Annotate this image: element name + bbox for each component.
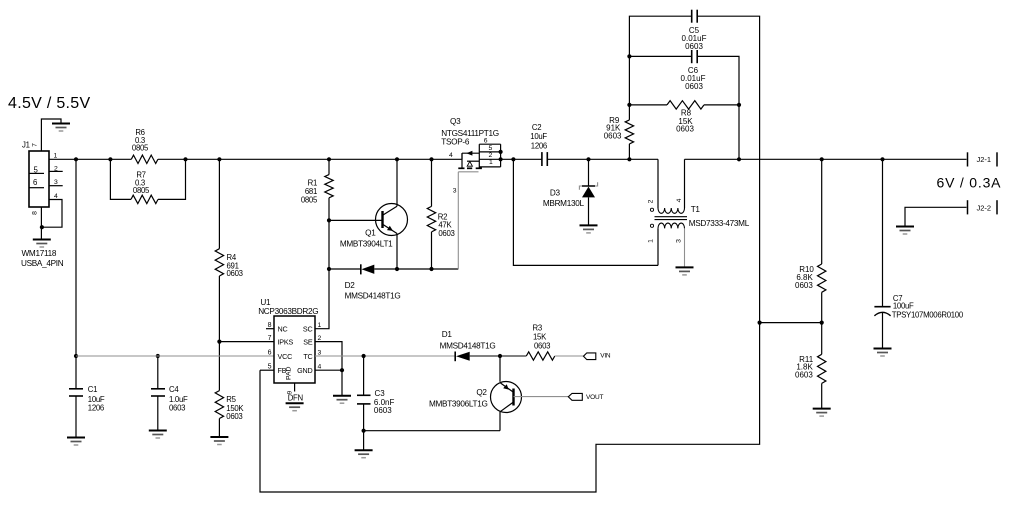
node 6V output label: [937, 175, 1002, 191]
ground at U1 GND: [333, 396, 351, 404]
node C6R8 bus to rail: [737, 157, 741, 161]
wire input rail left: [76, 158, 131, 160]
wire C2 to T1: [547, 158, 658, 160]
svg-text:5: 5: [489, 145, 493, 152]
svg-text:C1: C1: [88, 385, 97, 394]
wire R4 to R5: [218, 276, 220, 391]
svg-text:PAD: PAD: [286, 366, 293, 380]
node D2-R1: [327, 267, 331, 271]
svg-text:J1: J1: [22, 141, 30, 150]
wire Q3 source to rail: [501, 158, 542, 160]
svg-text:15K: 15K: [533, 333, 547, 342]
svg-text:0603: 0603: [438, 229, 454, 238]
svg-text:100uF: 100uF: [893, 302, 914, 311]
svg-text:C2: C2: [532, 123, 541, 132]
connector J1 WM17118 USBA_4PIN: [21, 141, 64, 269]
resistor R11: [795, 354, 826, 383]
diode D2 MMSD4148T1G: [345, 264, 401, 300]
node rail-R10: [820, 157, 824, 161]
svg-text:3: 3: [54, 179, 58, 186]
node R8 right: [737, 103, 741, 107]
node rail-R4: [217, 157, 221, 161]
svg-text:USBA_4PIN: USBA_4PIN: [21, 259, 64, 268]
svg-text:0603: 0603: [534, 341, 550, 350]
connector J2-1: [968, 152, 998, 166]
node J1 ground junction: [40, 225, 44, 229]
node D2-R2: [429, 267, 433, 271]
node IPKS junction: [217, 340, 221, 344]
wire R8 leads: [629, 104, 739, 106]
wire node to R11: [821, 323, 823, 355]
svg-text:J2-1: J2-1: [977, 155, 992, 164]
capacitor C1: [69, 385, 105, 413]
node TC-C3: [362, 354, 366, 358]
wire J1 pin2 stub: [49, 170, 63, 172]
ground at C7: [874, 349, 892, 357]
resistor R7: [131, 171, 158, 204]
node VIN tag: [584, 353, 611, 360]
ground at R5: [210, 437, 228, 445]
wire C1 to ground: [75, 396, 77, 437]
wire C3 node to ground: [363, 431, 365, 450]
svg-text:MSD7333-473ML: MSD7333-473ML: [689, 219, 750, 228]
ground at T1 pin 3: [676, 267, 694, 275]
resistor R9: [604, 116, 634, 144]
node rail-C7: [880, 157, 884, 161]
wire rail to R4: [218, 159, 220, 248]
svg-text:T1: T1: [691, 205, 701, 214]
ground at J2-2: [896, 227, 914, 235]
svg-text:8: 8: [32, 211, 39, 215]
resistor R5: [215, 391, 244, 421]
node R8 left: [627, 103, 631, 107]
node VOUT tag: [568, 393, 603, 400]
svg-text:0603: 0603: [169, 404, 185, 413]
wire C6 right: [697, 56, 739, 159]
svg-text:MMBT3906LT1G: MMBT3906LT1G: [429, 400, 488, 409]
svg-text:0603: 0603: [795, 370, 813, 379]
svg-text:MBRM130L: MBRM130L: [543, 199, 585, 208]
ground at D3: [580, 225, 598, 233]
ground at J1 pin 8: [33, 240, 51, 248]
svg-text:1206: 1206: [531, 141, 547, 150]
wire C5 right: [697, 16, 759, 322]
ground at R11: [813, 409, 831, 417]
wire C4 to ground: [157, 396, 159, 430]
svg-text:0805: 0805: [133, 186, 150, 195]
svg-text:Q1: Q1: [365, 228, 376, 237]
transformer T1 MSD7333-473ML: [648, 159, 750, 267]
svg-text:1: 1: [54, 153, 58, 160]
svg-text:IPKS: IPKS: [278, 337, 294, 346]
svg-text:C3: C3: [375, 389, 386, 398]
wire D2 node to SC: [315, 269, 329, 329]
svg-text:D2: D2: [345, 281, 356, 290]
wire D1 to R3: [470, 355, 527, 357]
svg-text:R3: R3: [533, 324, 542, 333]
wire C5 left: [629, 16, 691, 120]
svg-text:0603: 0603: [227, 269, 243, 278]
svg-text:6: 6: [484, 138, 488, 145]
wire D2 row right: [374, 268, 458, 270]
svg-text:0603: 0603: [604, 132, 622, 141]
resistor R3: [526, 324, 555, 361]
svg-text:3: 3: [453, 188, 457, 195]
transistor Q2 MMBT3906LT1G: [429, 356, 569, 431]
wire R9 to rail: [628, 144, 630, 159]
ground at C1: [67, 438, 85, 446]
svg-text:SC: SC: [303, 325, 313, 334]
svg-text:0603: 0603: [795, 281, 813, 290]
ground at C3: [355, 450, 373, 458]
resistor R8: [667, 101, 704, 134]
wire D2 row left: [329, 268, 361, 270]
wire R11 to ground: [821, 383, 823, 408]
svg-text:6: 6: [33, 178, 37, 187]
node Q3-C2: [511, 157, 515, 161]
svg-text:NCP3063BDR2G: NCP3063BDR2G: [258, 307, 318, 316]
svg-text:7: 7: [32, 143, 39, 147]
svg-text:4.5V / 5.5V: 4.5V / 5.5V: [8, 95, 90, 112]
wire TC net: [315, 355, 455, 357]
svg-text:4: 4: [449, 152, 453, 159]
node Q1 emitter-D2: [395, 267, 399, 271]
capacitor C4: [151, 385, 188, 413]
transistor Q1 MMBT3904LT1: [340, 159, 408, 269]
capacitor C2: [530, 123, 547, 166]
svg-text:0805: 0805: [301, 195, 318, 204]
wire Q2 collector row: [364, 430, 500, 432]
node SE-GND: [340, 368, 344, 372]
wire TC to C3: [363, 356, 365, 395]
capacitor C3: [357, 389, 394, 415]
svg-text:VCC: VCC: [278, 352, 293, 361]
wire input rail mid: [158, 158, 462, 160]
svg-text:GND: GND: [297, 366, 312, 375]
wire FB feedback path: [260, 323, 760, 492]
svg-text:Q3: Q3: [450, 117, 461, 126]
ground at U1 DFN pad: [286, 403, 304, 411]
node VCC-C1: [74, 354, 78, 358]
diode D1 MMSD4148T1G: [440, 330, 496, 361]
svg-text:VIN: VIN: [600, 353, 611, 360]
svg-text:0603: 0603: [226, 412, 242, 421]
svg-text:MMSD4148T1G: MMSD4148T1G: [345, 292, 401, 301]
svg-text:0805: 0805: [132, 143, 149, 152]
resistor R4: [215, 249, 242, 278]
wire primary return: [513, 159, 658, 265]
wire R2 to D2 row: [431, 232, 433, 269]
transistor Q3 NTGS4111PT1G: [441, 117, 502, 172]
wire output rail: [685, 158, 967, 160]
svg-text:DFN: DFN: [288, 393, 303, 402]
svg-text:1: 1: [318, 322, 322, 329]
svg-text:2: 2: [489, 152, 493, 159]
wire C6 left: [629, 55, 691, 57]
resistor R6: [131, 128, 158, 164]
capacitor C6: [681, 50, 706, 91]
wire Q3 gate: [453, 172, 459, 269]
svg-text:C4: C4: [169, 385, 179, 394]
wire FB lead: [260, 369, 274, 371]
capacitor C5: [682, 10, 707, 51]
svg-text:TPSY107M006R0100: TPSY107M006R0100: [892, 310, 964, 319]
svg-text:0603: 0603: [685, 42, 703, 51]
ground at C4: [149, 431, 167, 439]
wire SE loop: [315, 342, 342, 371]
wire rail to R10: [821, 159, 823, 264]
wire R10 to node: [821, 292, 823, 322]
connector J2-2: [968, 200, 998, 214]
wire VCC net: [76, 355, 274, 357]
node rail-D3: [586, 157, 590, 161]
wire R1 to D2 node: [328, 198, 330, 269]
diode D3 MBRM130L: [543, 159, 598, 225]
node C6 left: [627, 54, 631, 58]
svg-text:0603: 0603: [685, 82, 703, 91]
wire J2-2: [905, 207, 967, 226]
node rail-C1: [74, 157, 78, 161]
node C3-Q2 collector: [362, 429, 366, 433]
svg-text:U1: U1: [260, 298, 271, 307]
wire GND lead: [315, 369, 342, 371]
svg-text:VOUT: VOUT: [586, 394, 603, 401]
svg-text:10uF: 10uF: [530, 132, 547, 141]
node rail-R9: [627, 157, 631, 161]
wire GND to ground: [341, 370, 343, 395]
svg-text:4: 4: [676, 198, 683, 202]
node VCC-C4: [156, 354, 160, 358]
wire J1 pin3 stub: [49, 185, 63, 187]
wire IPKS lead: [219, 341, 274, 343]
resistor R1: [301, 175, 333, 205]
wire J1 pin8 down: [40, 207, 42, 239]
node rail-R1: [327, 157, 331, 161]
svg-text:0603: 0603: [374, 406, 392, 415]
svg-text:R5: R5: [226, 395, 236, 404]
svg-text:D3: D3: [550, 189, 561, 198]
node FB divider: [758, 321, 824, 325]
resistor R2: [427, 206, 454, 238]
svg-text:TSOP-6: TSOP-6: [441, 138, 470, 147]
svg-text:3: 3: [676, 239, 683, 243]
svg-text:NC: NC: [278, 325, 288, 334]
node rail-Q1 collector: [395, 157, 399, 161]
op-amp U1 NCP3063BDR2G: [258, 298, 321, 402]
svg-text:MMSD4148T1G: MMSD4148T1G: [440, 342, 496, 351]
svg-text:1: 1: [648, 239, 655, 243]
node R1-base: [327, 218, 331, 222]
wire rail to R1: [328, 159, 330, 174]
svg-text:MMBT3904LT1: MMBT3904LT1: [340, 239, 393, 248]
node rail-R7 right: [183, 157, 187, 161]
wire rail to R2: [431, 159, 433, 206]
node VIN_4.5V label: [8, 95, 90, 112]
svg-text:SE: SE: [303, 337, 313, 346]
wire R5 to ground: [218, 419, 220, 437]
svg-text:Q2: Q2: [476, 388, 487, 397]
ground at J1 pin 7: [52, 124, 70, 132]
wire FB node link: [760, 322, 822, 324]
svg-text:J2-2: J2-2: [977, 203, 992, 212]
resistor R10: [795, 264, 826, 292]
wire J1 pin4 loop: [42, 200, 62, 228]
svg-text:1: 1: [489, 159, 493, 166]
wire R3 to VIN tag: [555, 355, 584, 357]
svg-text:D1: D1: [442, 330, 453, 339]
svg-text:2: 2: [648, 199, 655, 203]
wire C3 bottom: [363, 404, 365, 431]
svg-text:6: 6: [268, 350, 272, 357]
node rail-R2: [429, 157, 433, 161]
wire VCC to C4: [157, 356, 159, 389]
wire base Q1: [329, 219, 383, 221]
capacitor C7 TPSY107M006R0100: [874, 159, 963, 348]
svg-text:6V / 0.3A: 6V / 0.3A: [937, 175, 1002, 191]
wire R7 branch: [110, 159, 185, 199]
svg-text:TC: TC: [303, 352, 312, 361]
wire rail to C1: [75, 159, 77, 388]
wire J1 pin1 stub: [49, 158, 76, 160]
svg-text:WM17118: WM17118: [22, 249, 57, 258]
svg-text:1206: 1206: [88, 404, 104, 413]
wire J1 pin7 to top ground: [41, 119, 61, 151]
node D1-Q2: [498, 354, 502, 358]
node rail-R7 left: [108, 157, 112, 161]
svg-text:0603: 0603: [676, 125, 694, 134]
